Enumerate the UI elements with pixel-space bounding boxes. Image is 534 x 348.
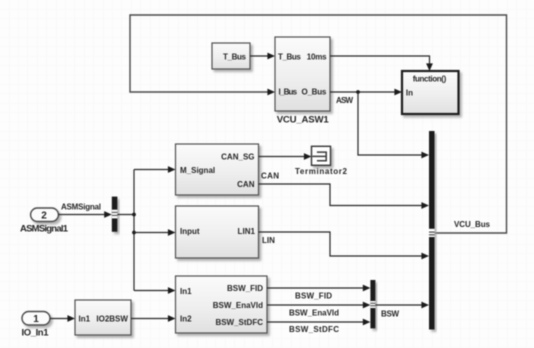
block Terminator2 [312,146,331,165]
wire BSW to VCU_Bus bus creator [375,302,429,309]
svg-text:BSW: BSW [381,310,399,319]
svg-text:ASMSignal1: ASMSignal1 [20,224,69,235]
svg-text:O_Bus: O_Bus [302,88,327,97]
svg-text:ASW: ASW [336,96,353,105]
svg-text:VCU_ASW1: VCU_ASW1 [277,114,330,125]
svg-text:1: 1 [33,314,39,325]
svg-text:T_Bus: T_Bus [223,52,247,61]
wire O_Bus to function() In port (net ASW) [330,89,402,96]
bus creator bar BSW [370,280,375,328]
svg-text:LIN: LIN [262,236,275,245]
svg-text:BSW_EnaVld: BSW_EnaVld [213,301,263,310]
junction at Input branch [132,231,136,235]
svg-text:I_Bus: I_Bus [279,88,298,97]
svg-text:In1: In1 [79,315,91,324]
wire LIN1 to VCU_Bus bus creator [259,232,430,259]
svg-text:10ms: 10ms [307,53,327,62]
svg-text:BSW_FID: BSW_FID [295,292,332,301]
block M_Signal [176,144,259,195]
wire T_Bus to VCU_ASW1 T_Bus port [250,53,275,60]
svg-text:BSW_StDFC: BSW_StDFC [215,318,263,327]
svg-text:LIN1: LIN1 [238,227,256,236]
svg-text:BSW_FID: BSW_FID [227,284,263,293]
svg-text:In: In [406,89,413,98]
wire branch to In1 [134,287,176,294]
wire CAN to VCU_Bus bus creator [259,184,430,209]
block function() [402,71,459,114]
wire 10ms to function() trigger port [330,56,433,71]
junction ASW [356,90,360,94]
wire vertical distribution [133,170,135,291]
inport 1 IO_In1 [22,312,50,326]
svg-text:CAN: CAN [261,172,279,181]
svg-text:BSW_EnaVld: BSW_EnaVld [289,309,339,318]
bus creator bar VCU_Bus [429,131,435,330]
svg-text:2: 2 [41,211,47,222]
svg-text:BSW_StDFC: BSW_StDFC [289,325,339,334]
svg-text:M_Signal: M_Signal [180,166,215,175]
junction at ASMSignal net [132,213,136,217]
wire branch to M_Signal [134,166,176,173]
wire bus selector to junction node [117,214,134,216]
svg-text:CAN: CAN [237,180,255,189]
svg-text:IO_In1: IO_In1 [22,328,50,339]
svg-text:function(): function() [413,74,447,83]
inport 2 ASMSignal1 [31,208,59,222]
bus selector bar (ASMSignal) [112,197,118,232]
wire ASW branch down to VCU_Bus bus creator [358,92,429,158]
svg-text:In1: In1 [180,287,192,296]
svg-text:IO2BSW: IO2BSW [96,315,128,324]
wire feedback loop VCU_Bus to I_Bus [130,15,507,233]
svg-text:CAN_SG: CAN_SG [221,153,254,162]
svg-text:VCU_Bus: VCU_Bus [454,220,491,229]
wire CAN_SG to Terminator2 [259,153,312,160]
wire IO_In1 to IO2BSW [50,315,75,322]
block VCU_ASW1 [275,37,330,111]
block BSW subsystem (In1/In2) [176,276,268,333]
wire BSW_EnaVld to BSW bus creator [267,302,370,309]
svg-text:Input: Input [180,227,200,236]
wire BSW_FID to BSW bus creator [267,285,370,292]
block IO2BSW [75,300,131,335]
wire BSW_StDFC to BSW bus creator [267,319,370,326]
svg-text:T_Bus: T_Bus [278,53,301,62]
svg-text:Terminator2: Terminator2 [295,167,348,176]
wire ASMSignal to bus selector [59,211,112,218]
block T_Bus (source subsystem) [212,43,250,69]
block Input [176,206,259,258]
wire branch to Input [134,229,176,236]
wire IO2BSW to In2 [131,315,176,322]
svg-text:ASMSignal: ASMSignal [61,203,101,212]
svg-text:In2: In2 [180,315,192,324]
